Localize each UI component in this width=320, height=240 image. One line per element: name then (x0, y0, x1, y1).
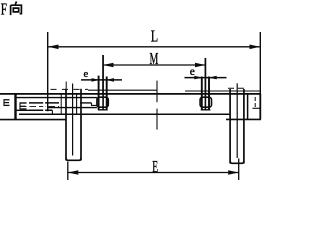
svg-text:E: E (152, 157, 158, 176)
svg-text:e: e (190, 66, 195, 78)
svg-text:e: e (84, 69, 89, 80)
svg-text:L: L (151, 27, 158, 46)
svg-text:M: M (150, 49, 159, 68)
svg-text:F: F (1, 0, 7, 19)
